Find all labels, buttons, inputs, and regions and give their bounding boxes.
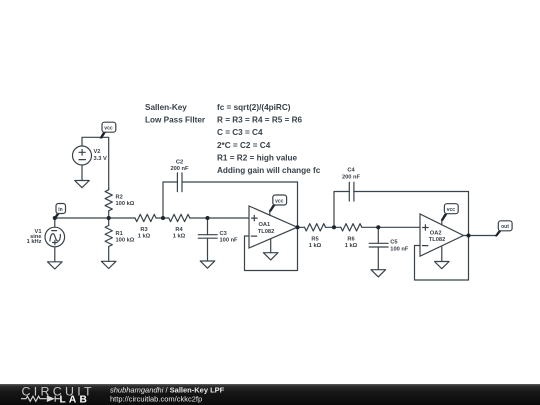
svg-text:vcc: vcc — [275, 198, 284, 204]
svg-text:R1 = R2 = high value: R1 = R2 = high value — [217, 153, 298, 162]
svg-text:R3: R3 — [140, 227, 147, 233]
svg-text:100 nF: 100 nF — [390, 246, 409, 252]
svg-text:C3: C3 — [220, 231, 227, 237]
svg-text:C5: C5 — [390, 240, 397, 246]
svg-text:2*C = C2 = C4: 2*C = C2 = C4 — [217, 141, 271, 150]
svg-text:vcc: vcc — [447, 207, 456, 213]
svg-text:3.3 V: 3.3 V — [94, 156, 107, 162]
svg-text:R4: R4 — [175, 227, 183, 233]
svg-text:200 nF: 200 nF — [170, 166, 189, 172]
svg-text:R5: R5 — [311, 236, 318, 242]
svg-text:Adding gain will change fc: Adding gain will change fc — [217, 166, 321, 175]
svg-text:OA1: OA1 — [259, 222, 271, 228]
svg-text:C = C3 = C4: C = C3 = C4 — [217, 128, 263, 137]
svg-text:100 kΩ: 100 kΩ — [116, 238, 135, 244]
svg-text:shubhamgandhi / Sallen-Key LPF: shubhamgandhi / Sallen-Key LPF — [110, 386, 225, 395]
svg-text:1 kΩ: 1 kΩ — [309, 243, 322, 249]
svg-text:Low Pass FIlter: Low Pass FIlter — [145, 116, 206, 125]
svg-text:C4: C4 — [347, 168, 355, 174]
svg-text:1 kΩ: 1 kΩ — [345, 243, 358, 249]
svg-text:out: out — [501, 224, 509, 230]
svg-text:200 nF: 200 nF — [342, 174, 361, 180]
svg-text:1 kΩ: 1 kΩ — [173, 234, 186, 240]
svg-text:LAB: LAB — [60, 394, 91, 405]
svg-text:V2: V2 — [94, 149, 101, 155]
svg-text:R = R3 = R4 = R5 = R6: R = R3 = R4 = R5 = R6 — [217, 116, 303, 125]
svg-text:1 kΩ: 1 kΩ — [138, 234, 151, 240]
svg-text:vcc: vcc — [104, 126, 113, 132]
svg-text:R6: R6 — [347, 236, 354, 242]
svg-text:TL082: TL082 — [258, 229, 274, 235]
svg-text:R2: R2 — [116, 194, 123, 200]
svg-text:C2: C2 — [176, 160, 183, 166]
svg-text:fc = sqrt(2)/(4piRC): fc = sqrt(2)/(4piRC) — [217, 103, 291, 112]
svg-text:OA2: OA2 — [430, 231, 442, 237]
svg-text:100 kΩ: 100 kΩ — [116, 201, 135, 207]
svg-text:100 nF: 100 nF — [220, 238, 239, 244]
svg-text:1 kHz: 1 kHz — [27, 239, 42, 245]
svg-text:http://circuitlab.com/ckkc2fp: http://circuitlab.com/ckkc2fp — [110, 395, 202, 404]
svg-text:TL082: TL082 — [429, 237, 445, 243]
svg-text:Sallen-Key: Sallen-Key — [145, 103, 187, 112]
svg-text:R1: R1 — [116, 231, 123, 237]
svg-text:in: in — [58, 207, 62, 213]
